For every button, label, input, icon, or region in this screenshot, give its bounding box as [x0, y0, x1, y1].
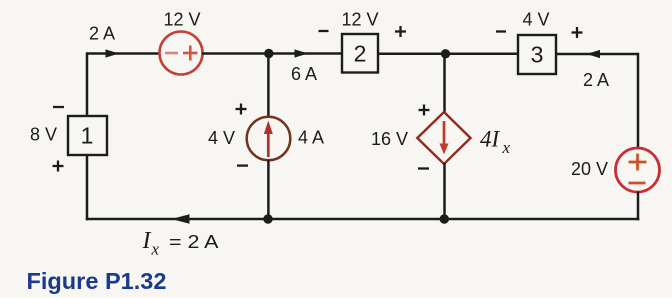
node junction top-A: [264, 49, 273, 58]
current source I1 4A circle: [247, 117, 291, 161]
wire top between node A2 and element 3: [378, 53, 518, 56]
polarity minus above element 1: [53, 106, 64, 108]
element box 1: [68, 116, 107, 155]
wire top-right segment: [556, 53, 638, 56]
svg-text:Figure P1.32: Figure P1.32: [27, 268, 167, 294]
svg-text:4 V: 4 V: [522, 10, 549, 30]
voltage source V1 12V circle: [160, 32, 203, 75]
wire left vertical upper: [86, 52, 89, 116]
wire branch B upper: [443, 54, 446, 113]
svg-text:x: x: [502, 138, 511, 157]
svg-text:20 V: 20 V: [571, 159, 608, 179]
wire top middle segment: [202, 52, 342, 55]
label Ix = 2 A: [142, 228, 220, 259]
wire right vertical upper: [637, 53, 640, 150]
node junction top-B: [441, 49, 450, 58]
polarity minus below current source: [237, 164, 248, 166]
polarity minus left of element 2: [319, 30, 329, 32]
wire branch B lower: [443, 163, 446, 219]
polarity plus right of element 2: [395, 26, 406, 37]
node junction bottom-A: [263, 214, 272, 223]
svg-text:12 V: 12 V: [341, 10, 378, 30]
svg-text:2: 2: [354, 41, 367, 67]
svg-text:16 V: 16 V: [371, 129, 408, 149]
svg-text:4 A: 4 A: [298, 128, 324, 148]
arrow inside dependent source pointing down: [440, 121, 449, 155]
wire bottom segment: [86, 218, 640, 221]
label 4Ix dependent source value: [480, 127, 511, 158]
arrow current Ix bottom pointing left: [172, 214, 190, 223]
svg-text:= 2 A: = 2 A: [169, 231, 219, 252]
polarity plus above current source: [236, 104, 247, 115]
wire branch A lower: [267, 160, 270, 219]
polarity plus right of element 3: [572, 27, 583, 38]
svg-text:x: x: [151, 240, 160, 259]
svg-text:1: 1: [81, 123, 94, 149]
polarity plus above dependent source: [419, 105, 430, 116]
polarity minus inside 20V source: [629, 182, 646, 185]
arrow inside current source pointing up: [264, 121, 273, 158]
wire left vertical lower: [86, 155, 89, 220]
svg-text:8 V: 8 V: [30, 125, 57, 145]
dependent source diamond 4Ix: [417, 112, 470, 164]
svg-text:4I: 4I: [480, 127, 501, 152]
arrow current 2A right: [587, 50, 601, 58]
element box 3: [518, 35, 556, 74]
polarity plus below element 1: [53, 161, 64, 172]
polarity plus inside 12V source: [183, 46, 198, 61]
wire branch A upper: [267, 54, 270, 118]
polarity plus inside 20V source: [629, 154, 647, 171]
svg-text:6 A: 6 A: [291, 64, 317, 84]
wire right vertical lower: [637, 192, 640, 221]
svg-text:12 V: 12 V: [163, 10, 200, 30]
element box 2: [342, 34, 378, 73]
node junction bottom-B: [440, 214, 449, 223]
polarity minus below dependent source: [418, 167, 429, 169]
svg-text:3: 3: [531, 42, 544, 68]
svg-text:I: I: [142, 228, 152, 254]
polarity minus left of element 3: [496, 30, 506, 32]
svg-text:4 V: 4 V: [208, 128, 235, 148]
svg-text:2 A: 2 A: [89, 24, 115, 44]
voltage source V3 20V circle: [616, 148, 660, 192]
arrow current 6A: [295, 49, 309, 57]
polarity minus inside 12V source: [165, 52, 178, 55]
wire top-left segment: [87, 52, 160, 55]
svg-text:2 A: 2 A: [583, 70, 609, 90]
arrow current 2A top-left: [106, 49, 120, 57]
